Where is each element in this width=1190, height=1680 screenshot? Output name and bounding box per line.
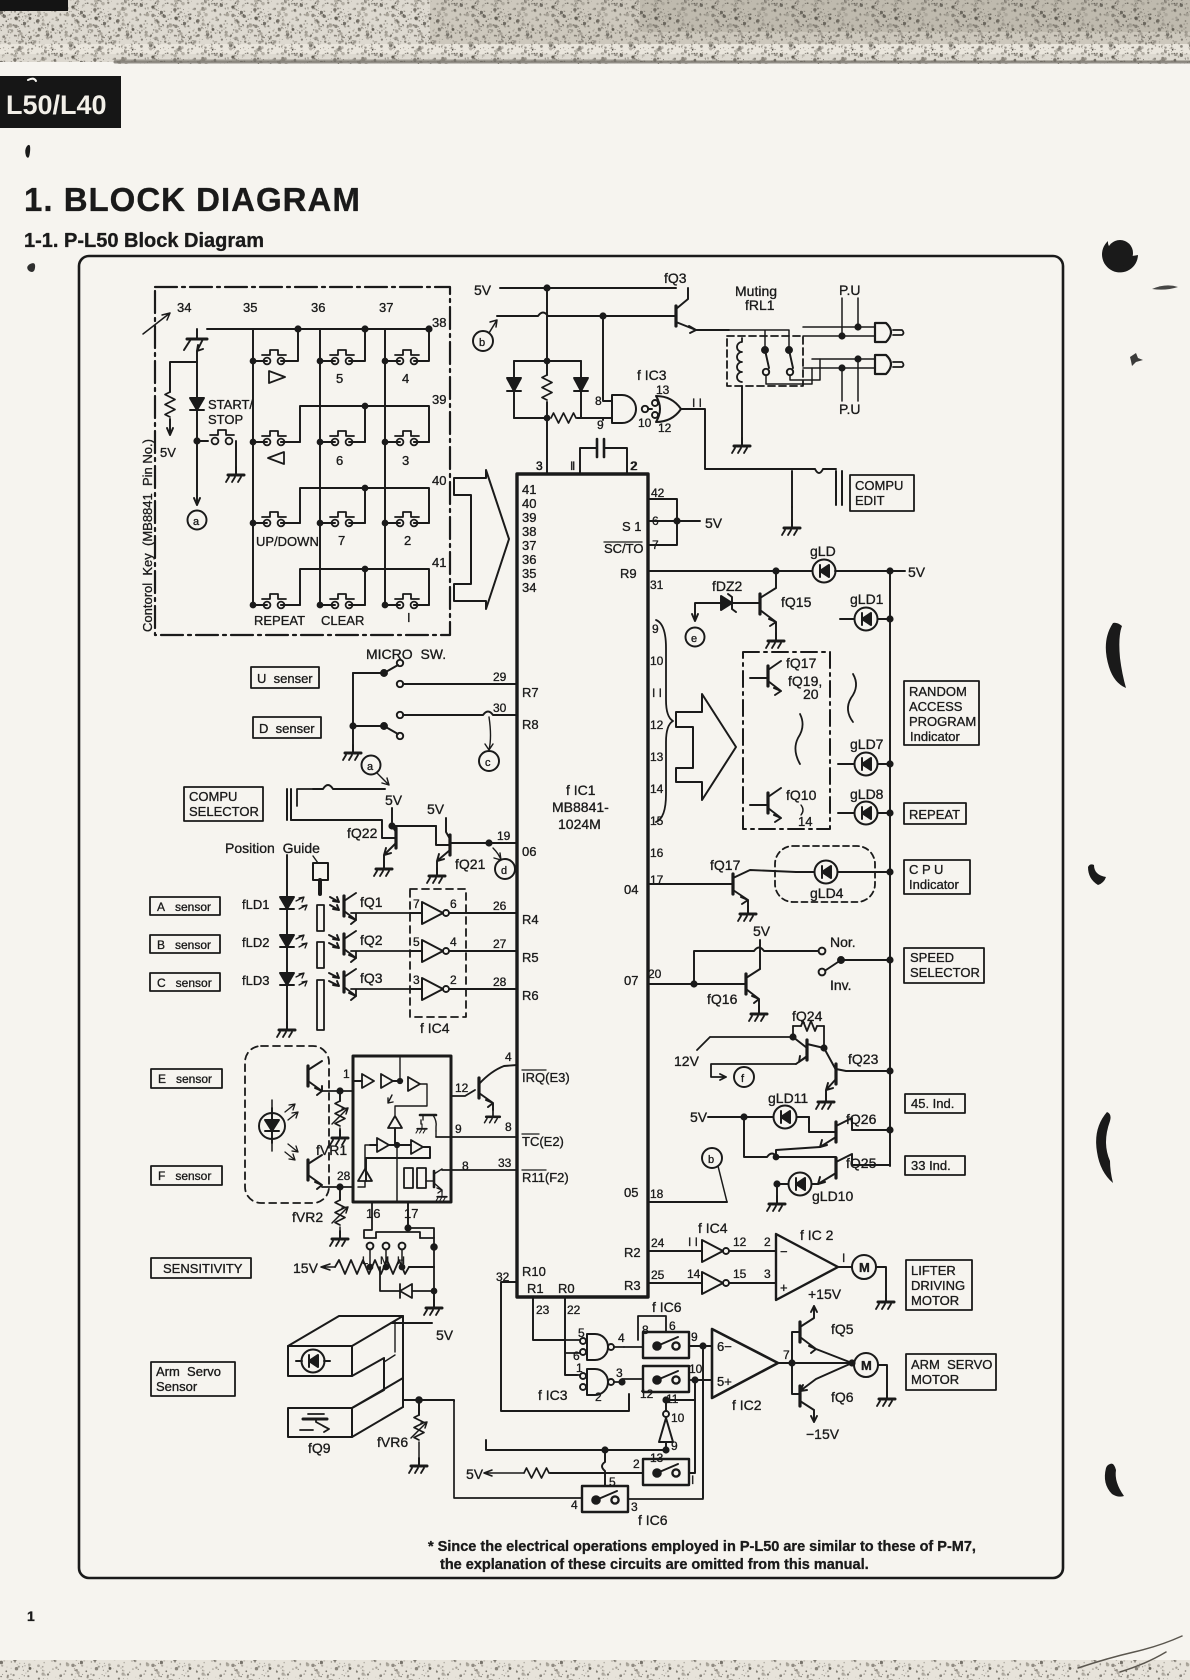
fIC4 dashed box	[410, 889, 466, 1017]
svg-text:fQ3: fQ3	[664, 270, 687, 286]
motor M arm	[854, 1353, 878, 1377]
wire F to pin28	[322, 1186, 353, 1188]
svg-text:STOP: STOP	[208, 412, 243, 427]
svg-text:fQ15: fQ15	[781, 594, 812, 610]
svg-text:* Since the electrical operati: * Since the electrical operations employ…	[428, 1539, 976, 1555]
svg-text:1-1. P-L50 Block Diagram: 1-1. P-L50 Block Diagram	[24, 230, 264, 252]
ground sensitivity	[433, 1291, 435, 1300]
svg-text:SELECTOR: SELECTOR	[189, 804, 259, 819]
svg-text:5V: 5V	[385, 792, 403, 808]
svg-text:fVR2: fVR2	[292, 1209, 323, 1225]
svg-text:PROGRAM: PROGRAM	[909, 714, 976, 729]
svg-text:8: 8	[462, 1159, 469, 1173]
light rays E	[285, 1104, 298, 1120]
EF LED emitter	[259, 1113, 285, 1139]
svg-text:IRQ(E3): IRQ(E3)	[522, 1070, 570, 1085]
svg-text:7: 7	[338, 533, 345, 548]
svg-text:30: 30	[493, 701, 507, 715]
svg-text:−15V: −15V	[806, 1426, 840, 1442]
svg-text:34: 34	[177, 300, 191, 315]
arm servo optocoupler body	[288, 1316, 403, 1346]
svg-text:25: 25	[651, 1268, 665, 1282]
svg-text:38: 38	[432, 315, 446, 330]
svg-text:S 1: S 1	[622, 519, 642, 534]
svg-text:R11(F2): R11(F2)	[522, 1170, 569, 1185]
wire nand out to nor	[648, 408, 652, 410]
svg-text:41: 41	[432, 555, 446, 570]
svg-text:12V: 12V	[674, 1053, 700, 1069]
wire connector to 5V node	[313, 785, 385, 789]
svg-text:f IC3: f IC3	[538, 1387, 568, 1403]
svg-text:12: 12	[640, 1387, 654, 1401]
continuation squiggle outside	[848, 674, 856, 722]
svg-text:5: 5	[336, 371, 343, 386]
svg-text:33: 33	[498, 1156, 512, 1170]
svg-text:2: 2	[633, 1457, 640, 1471]
stray mark	[25, 145, 30, 158]
key switch r2c2	[330, 431, 354, 445]
svg-text:4: 4	[571, 1498, 578, 1512]
svg-text:5V: 5V	[160, 445, 176, 460]
plug P.U 2	[875, 355, 891, 374]
svg-text:R7: R7	[522, 685, 539, 700]
wire EF to IRQ pin4	[451, 1090, 475, 1096]
svg-text:2: 2	[595, 1390, 602, 1404]
svg-text:L50/L40: L50/L40	[6, 90, 107, 120]
svg-text:4: 4	[618, 1331, 625, 1345]
svg-text:SENSITIVITY: SENSITIVITY	[163, 1261, 243, 1276]
LIFTER DRIVING MOTOR box	[906, 1260, 972, 1310]
micro sw common pole	[352, 673, 354, 745]
svg-text:17: 17	[404, 1206, 418, 1221]
svg-text:1. BLOCK DIAGRAM: 1. BLOCK DIAGRAM	[24, 181, 361, 218]
key switch r4c3	[395, 594, 419, 608]
svg-text:23: 23	[536, 1303, 550, 1317]
svg-text:fQ22: fQ22	[347, 825, 378, 841]
RAP driver dash-dot box	[743, 652, 830, 829]
svg-text:5V: 5V	[474, 282, 492, 298]
buffer fIC4e	[702, 1272, 723, 1294]
arrow to node c	[485, 717, 493, 750]
svg-text:Contorol Key (MB8841 Pin No: Contorol Key (MB8841 Pin No.)	[140, 439, 155, 632]
svg-text:15: 15	[733, 1267, 747, 1281]
svg-text:16: 16	[650, 846, 664, 860]
svg-text:20: 20	[803, 686, 819, 702]
P.U wires top	[842, 298, 858, 336]
svg-text:START/: START/	[208, 397, 253, 412]
wire R2 pin24	[648, 1250, 702, 1252]
relay coil	[737, 338, 742, 382]
svg-text:1: 1	[343, 1067, 350, 1081]
svg-text:REPEAT: REPEAT	[909, 807, 960, 822]
A sensor box	[150, 897, 220, 915]
wire 5+ input	[695, 1380, 712, 1472]
svg-text:f IC 2: f IC 2	[800, 1227, 834, 1243]
gLD4 rounded dashed group	[775, 846, 875, 902]
B sensor box	[150, 935, 220, 953]
phototransistor F	[306, 1160, 309, 1180]
resistor 5V pull	[170, 362, 197, 392]
diode network resistor mid	[542, 375, 552, 400]
node e circle	[686, 628, 705, 647]
key switch r1c1	[262, 350, 286, 364]
svg-text:E sensor: E sensor	[158, 1072, 212, 1086]
up arrow amp	[388, 1116, 402, 1128]
arrow into resistor	[321, 1264, 335, 1270]
block arrow keys to IC	[454, 470, 509, 609]
svg-text:16: 16	[366, 1206, 380, 1221]
svg-text:1: 1	[27, 1608, 35, 1624]
svg-text:fLD2: fLD2	[242, 935, 269, 950]
E sensor box	[151, 1069, 222, 1088]
ground fQ15	[766, 633, 784, 648]
svg-text:29: 29	[493, 670, 507, 684]
svg-text:22: 22	[567, 1303, 581, 1317]
svg-text:fQ17: fQ17	[710, 857, 741, 873]
internal transistor top	[420, 1114, 436, 1117]
svg-text:R0: R0	[558, 1281, 575, 1296]
wire to pin 28	[449, 988, 517, 990]
scanner artifacts right margin	[1088, 240, 1178, 1497]
svg-text:COMPU: COMPU	[189, 789, 237, 804]
wire to node e	[692, 603, 700, 621]
IC U1 MB8841 body	[517, 474, 648, 1297]
svg-text:06: 06	[522, 844, 536, 859]
svg-text:I I: I I	[692, 396, 702, 410]
wire opamp to lifter motor	[838, 1266, 852, 1268]
svg-text:39: 39	[522, 510, 536, 525]
svg-text:b: b	[708, 1154, 714, 1166]
COMPU SELECTOR box	[184, 787, 263, 821]
wire R3 pin25	[648, 1282, 702, 1284]
wire 07 pin20 to fQ16 base	[648, 983, 738, 985]
svg-text:R9: R9	[620, 566, 637, 581]
wire R9 rail to 5V	[648, 570, 905, 572]
svg-text:3: 3	[402, 453, 409, 468]
CPU Indicator box	[904, 860, 970, 894]
S1 pin bracket 42/6/7	[648, 499, 700, 545]
IC1 right pin numbers	[648, 486, 665, 1282]
svg-text:R1: R1	[527, 1281, 544, 1296]
D senser box	[253, 717, 321, 738]
COMPU EDIT connector	[836, 471, 842, 505]
svg-text:6: 6	[450, 897, 457, 911]
svg-text:fDZ2: fDZ2	[712, 578, 743, 594]
svg-text:3: 3	[631, 1500, 638, 1514]
svg-text:5+: 5+	[717, 1374, 732, 1389]
svg-text:Arm Servo: Arm Servo	[156, 1364, 221, 1379]
svg-text:fQ24: fQ24	[792, 1008, 823, 1024]
phototransistor E	[306, 1066, 309, 1086]
svg-text:7: 7	[413, 897, 420, 911]
ground LED chain	[277, 1022, 295, 1037]
key switch r4c2	[330, 594, 354, 608]
wire fQ26 emitter down	[776, 1147, 820, 1157]
svg-text:MOTOR: MOTOR	[911, 1293, 959, 1308]
svg-text:SELECTOR: SELECTOR	[910, 965, 980, 980]
svg-text:20: 20	[648, 967, 662, 981]
svg-text:SPEED: SPEED	[910, 950, 954, 965]
light rays F	[285, 1144, 298, 1160]
ground fQ17	[738, 906, 756, 921]
33 Ind box	[905, 1156, 965, 1175]
svg-text:I: I	[407, 610, 411, 625]
block arrow to RAP drivers	[676, 694, 736, 800]
wire node to Nor contact	[694, 948, 818, 985]
EF rounded dashed enclosure	[245, 1046, 329, 1203]
REPEAT box	[904, 803, 966, 824]
wire R0 pin22	[565, 1297, 577, 1375]
svg-text:45. Ind.: 45. Ind.	[911, 1096, 954, 1111]
svg-text:39: 39	[432, 392, 446, 407]
svg-text:42: 42	[651, 486, 665, 500]
key switch r2c3	[395, 431, 419, 445]
optocoupler phototransistor	[303, 1418, 327, 1421]
key switch r3c2	[330, 512, 354, 526]
series resistor to gate	[551, 413, 576, 423]
svg-text:fQ3: fQ3	[360, 970, 383, 986]
svg-text:3: 3	[413, 973, 420, 987]
COMPU EDIT box	[850, 475, 914, 511]
key switch r1c3	[395, 350, 419, 364]
svg-text:f IC6: f IC6	[638, 1512, 668, 1528]
svg-text:MOTOR: MOTOR	[911, 1372, 959, 1387]
svg-text:R10: R10	[522, 1264, 546, 1279]
svg-text:1024M: 1024M	[558, 816, 601, 832]
svg-text:fLD1: fLD1	[242, 897, 269, 912]
node b circle	[473, 331, 493, 351]
svg-text:7: 7	[783, 1348, 790, 1362]
plug P.U 1	[875, 323, 891, 342]
svg-text:38: 38	[522, 524, 536, 539]
svg-text:36: 36	[522, 552, 536, 567]
relay outputs to plugs	[766, 359, 820, 384]
buffer fIC6 inverter up	[663, 1411, 669, 1417]
wire fQ3 emitter to relay	[696, 329, 729, 331]
svg-text:F sensor: F sensor	[158, 1169, 211, 1183]
wire gate input 9	[603, 417, 612, 419]
SENSITIVITY box	[151, 1258, 251, 1278]
svg-text:SC/TO: SC/TO	[604, 541, 644, 556]
key switch r3c1	[262, 512, 286, 526]
svg-text:fQ25: fQ25	[846, 1155, 877, 1171]
svg-text:Inv.: Inv.	[830, 977, 852, 993]
NOR gate fIC3b	[656, 396, 681, 422]
crystal cap loop	[580, 448, 627, 474]
svg-text:f IC4: f IC4	[420, 1020, 450, 1036]
svg-text:P.U: P.U	[839, 401, 861, 417]
svg-text:10: 10	[650, 654, 664, 668]
svg-text:+: +	[780, 1280, 788, 1295]
wire fQ22 collector to fQ21	[392, 825, 436, 827]
ground gLD10	[776, 1184, 778, 1196]
svg-text:35: 35	[243, 300, 257, 315]
wire fQ24 emitter to f	[711, 1064, 796, 1080]
svg-text:fQ16: fQ16	[707, 991, 738, 1007]
svg-text:15V: 15V	[293, 1260, 319, 1276]
junction dots top bus	[295, 326, 300, 331]
svg-text:TC(E2): TC(E2)	[522, 1134, 564, 1149]
node d circle	[493, 848, 501, 860]
ground start/stop	[226, 467, 244, 482]
svg-text:gLD8: gLD8	[850, 786, 884, 802]
analog switch fIC6c	[643, 1459, 689, 1485]
arrow to pin 34	[143, 313, 170, 334]
svg-text:14: 14	[798, 814, 812, 829]
svg-text:37: 37	[379, 300, 393, 315]
diode sensitivity	[380, 1267, 434, 1298]
svg-text:9: 9	[597, 418, 604, 432]
svg-text:5V: 5V	[690, 1109, 708, 1125]
wire 6- input	[703, 1346, 712, 1498]
bottom right squiggles	[1078, 1636, 1182, 1672]
svg-text:f IC6: f IC6	[652, 1299, 682, 1315]
wire nor out to compu edit	[681, 409, 836, 473]
optocoupler LED	[302, 1350, 325, 1373]
F sensor box	[151, 1166, 222, 1185]
svg-text:2: 2	[404, 533, 411, 548]
svg-text:P.U: P.U	[839, 282, 861, 298]
svg-text:27: 27	[493, 937, 507, 951]
wire sensor out	[403, 1400, 454, 1401]
svg-text:33 Ind.: 33 Ind.	[911, 1158, 951, 1173]
svg-text:−: −	[780, 1244, 788, 1259]
stray mark	[27, 263, 35, 272]
svg-text:I: I	[572, 459, 575, 473]
wire pin32	[501, 1282, 629, 1411]
IC1 left pin numbers	[493, 670, 512, 1284]
node c circle	[479, 751, 499, 771]
svg-text:12: 12	[455, 1081, 469, 1095]
wire EF to TC pin8	[436, 1136, 517, 1138]
svg-text:40: 40	[432, 473, 446, 488]
wire down to sw5	[602, 1450, 605, 1485]
transistor fQ24	[805, 1040, 808, 1060]
svg-text:gLD4: gLD4	[810, 885, 844, 901]
wire to pin 26	[449, 912, 517, 914]
svg-text:41: 41	[522, 482, 536, 497]
control key dash-dot box	[155, 287, 450, 635]
45 Ind box	[905, 1094, 965, 1113]
svg-text:fQ1: fQ1	[360, 894, 383, 910]
svg-text:26: 26	[493, 899, 507, 913]
analog switch fIC6b	[643, 1366, 689, 1392]
column verticals	[253, 329, 385, 605]
wire R1 pin23	[533, 1297, 565, 1340]
svg-text:B sensor: B sensor	[157, 938, 211, 952]
svg-text:ARM SERVO: ARM SERVO	[911, 1357, 992, 1372]
svg-text:REPEAT: REPEAT	[254, 613, 305, 628]
svg-text:14: 14	[687, 1267, 701, 1281]
svg-text:I: I	[691, 1473, 694, 1487]
svg-text:24: 24	[651, 1236, 665, 1250]
wire U to pin29	[403, 683, 517, 685]
EF box internals: input buffers	[353, 1080, 362, 1082]
node b circle lower	[702, 1148, 722, 1168]
svg-text:CLEAR: CLEAR	[321, 613, 364, 628]
wire node c to switches	[486, 1440, 666, 1450]
svg-text:5V: 5V	[908, 564, 926, 580]
main diagram border box	[79, 256, 1063, 1578]
buffer fIC4d	[702, 1240, 723, 1262]
svg-text:+15V: +15V	[808, 1286, 842, 1302]
Arm Servo Sensor box	[151, 1362, 235, 1396]
svg-text:5: 5	[413, 935, 420, 949]
svg-text:a: a	[367, 761, 374, 773]
svg-text:R3: R3	[624, 1278, 641, 1293]
svg-text:R8: R8	[522, 717, 539, 732]
analog switch fIC6d	[582, 1486, 628, 1512]
svg-text:fVR6: fVR6	[377, 1434, 408, 1450]
svg-text:40: 40	[522, 496, 536, 511]
wire D to pin30	[403, 712, 517, 716]
svg-text:gLD: gLD	[810, 543, 836, 559]
svg-text:Indicator: Indicator	[910, 729, 961, 744]
svg-text:9: 9	[691, 1330, 698, 1344]
svg-text:fQ9: fQ9	[308, 1440, 331, 1456]
svg-text:4: 4	[402, 371, 409, 386]
svg-text:2: 2	[631, 459, 638, 473]
svg-text:05: 05	[624, 1185, 638, 1200]
op-amp fIC2b arm	[712, 1329, 778, 1398]
svg-text:I I: I I	[652, 686, 662, 700]
relay contacts	[762, 347, 768, 353]
sensitivity link loop	[364, 1202, 434, 1238]
svg-text:5V: 5V	[753, 923, 771, 939]
node a circle mid	[362, 756, 381, 775]
svg-text:36: 36	[311, 300, 325, 315]
svg-text:9: 9	[652, 622, 659, 636]
row3 bus	[281, 488, 429, 523]
EF processing box	[353, 1056, 451, 1202]
svg-text:U senser: U senser	[257, 671, 313, 686]
P.U wires bottom	[842, 359, 858, 401]
motor M lifter	[852, 1255, 876, 1279]
compu selector connector	[287, 789, 291, 820]
svg-text:R6: R6	[522, 988, 539, 1003]
svg-text:R4: R4	[522, 912, 539, 927]
svg-text:C sensor: C sensor	[157, 976, 212, 990]
RANDOM ACCESS PROGRAM Indicator box	[904, 681, 979, 745]
relay coil ground wire	[741, 386, 743, 438]
svg-text:Sensor: Sensor	[156, 1379, 198, 1394]
svg-text:I: I	[842, 1251, 845, 1265]
svg-text:fQ10: fQ10	[786, 787, 817, 803]
diode D34	[190, 398, 204, 410]
row2 bus	[281, 406, 429, 442]
pins 9-16 brace	[656, 620, 673, 822]
SECTION PLACEHOLDERS	[140, 287, 450, 662]
svg-text:e: e	[691, 633, 697, 645]
svg-text:COMPU: COMPU	[855, 478, 903, 493]
wire fQ21 to pin19	[450, 842, 517, 844]
svg-text:3: 3	[764, 1267, 771, 1281]
svg-text:2: 2	[450, 973, 457, 987]
svg-text:MICRO SW.: MICRO SW.	[366, 646, 446, 662]
svg-text:fQ23: fQ23	[848, 1051, 879, 1067]
IC1 left port labels 41-34	[522, 482, 536, 595]
diode network right diode	[574, 378, 588, 391]
bottom return wire	[454, 1380, 703, 1499]
SPEED SELECTOR box	[904, 948, 984, 983]
svg-text:31: 31	[650, 578, 664, 592]
wire pin3 vertical	[546, 418, 548, 474]
sensitivity resistor	[335, 1260, 409, 1274]
wire to pin 27	[449, 950, 517, 952]
svg-text:3: 3	[616, 1366, 623, 1380]
LED chain wire	[286, 855, 288, 1022]
svg-text:DRIVING: DRIVING	[911, 1278, 965, 1293]
